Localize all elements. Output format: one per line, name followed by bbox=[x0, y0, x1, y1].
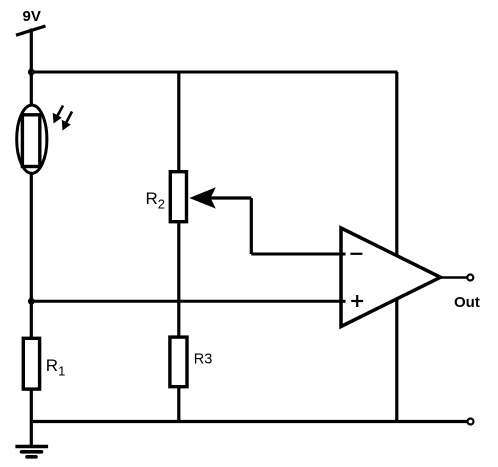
resistor R3 box bbox=[170, 337, 187, 387]
wire: op-amp output bbox=[441, 276, 468, 279]
wire nub: - input at op-amp edge bbox=[339, 253, 346, 256]
ground symbol bbox=[15, 447, 48, 457]
svg-text:9V: 9V bbox=[23, 8, 41, 25]
wire: R2/R3 branch bbox=[177, 72, 180, 422]
resistor R2 box bbox=[170, 172, 186, 222]
wire: bottom rail bbox=[31, 420, 467, 423]
op-amp + input symbol bbox=[351, 295, 363, 307]
svg-text:Out: Out bbox=[454, 294, 480, 311]
op-amp - input symbol bbox=[350, 253, 362, 255]
wire: 9V stub down to top rail bbox=[30, 29, 33, 73]
wire: top rail bbox=[31, 71, 397, 74]
photoresistor LDR body (ellipse) bbox=[17, 105, 47, 173]
wire: wiper vertical drop bbox=[250, 198, 253, 254]
resistor R1 box bbox=[23, 338, 39, 389]
wire: left branch (through LDR and R1 down to ground) bbox=[30, 72, 33, 447]
wire nub: + input at op-amp edge bbox=[339, 300, 346, 303]
terminal: bottom right open circle bbox=[468, 419, 474, 425]
wire: to op-amp - input bbox=[251, 253, 345, 256]
svg-text:R3: R3 bbox=[194, 352, 213, 368]
9V supply terminal stub bbox=[16, 26, 46, 35]
junction dot: top left bbox=[28, 69, 35, 76]
potentiometer wiper arrowhead bbox=[189, 187, 216, 208]
wire: wiper horizontal bbox=[210, 196, 251, 199]
terminal: output open circle bbox=[467, 275, 473, 281]
wire: middle rail to op-amp + input bbox=[31, 300, 345, 303]
wire: right supply rail (crosses behind op-amp) bbox=[395, 72, 398, 422]
light arrow 1 bbox=[53, 106, 63, 124]
op-amp U1 body bbox=[341, 228, 441, 327]
junction dot: middle left bbox=[28, 298, 35, 305]
photoresistor LDR resistor box bbox=[22, 115, 39, 167]
light arrow 2 bbox=[62, 112, 72, 131]
